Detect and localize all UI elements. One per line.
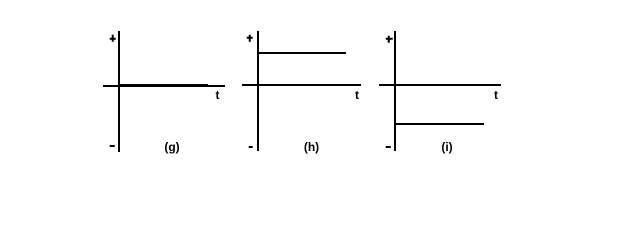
graph (g) minus label <box>110 145 115 147</box>
graph (i) negative constant signal wire <box>394 123 485 125</box>
graph (h) horizontal axis (t axis) <box>242 84 361 86</box>
graph (i) caption <box>441 141 452 153</box>
graph (i) t label <box>494 89 498 101</box>
graph (g) plus label <box>109 35 116 42</box>
graph (i) horizontal axis (t axis) <box>379 84 501 86</box>
graph (i) minus label <box>386 146 391 148</box>
graph (h) positive constant signal wire <box>257 52 347 54</box>
graph (h) vertical axis <box>257 31 259 151</box>
graph (h) caption <box>304 141 319 153</box>
graph (g) zero-level signal wire (thick segment on axis) <box>118 84 208 87</box>
graph (h) plus label <box>246 35 253 42</box>
graph (g) caption <box>164 141 179 153</box>
graph (g) t label <box>216 89 220 101</box>
graph (g) vertical axis <box>118 31 120 152</box>
graph (g) horizontal axis (t axis) <box>103 85 225 87</box>
graph (i) vertical axis <box>394 31 396 151</box>
graph (i) plus label <box>386 36 393 43</box>
graph (h) minus label <box>248 146 253 148</box>
graph (h) t label <box>355 89 359 101</box>
